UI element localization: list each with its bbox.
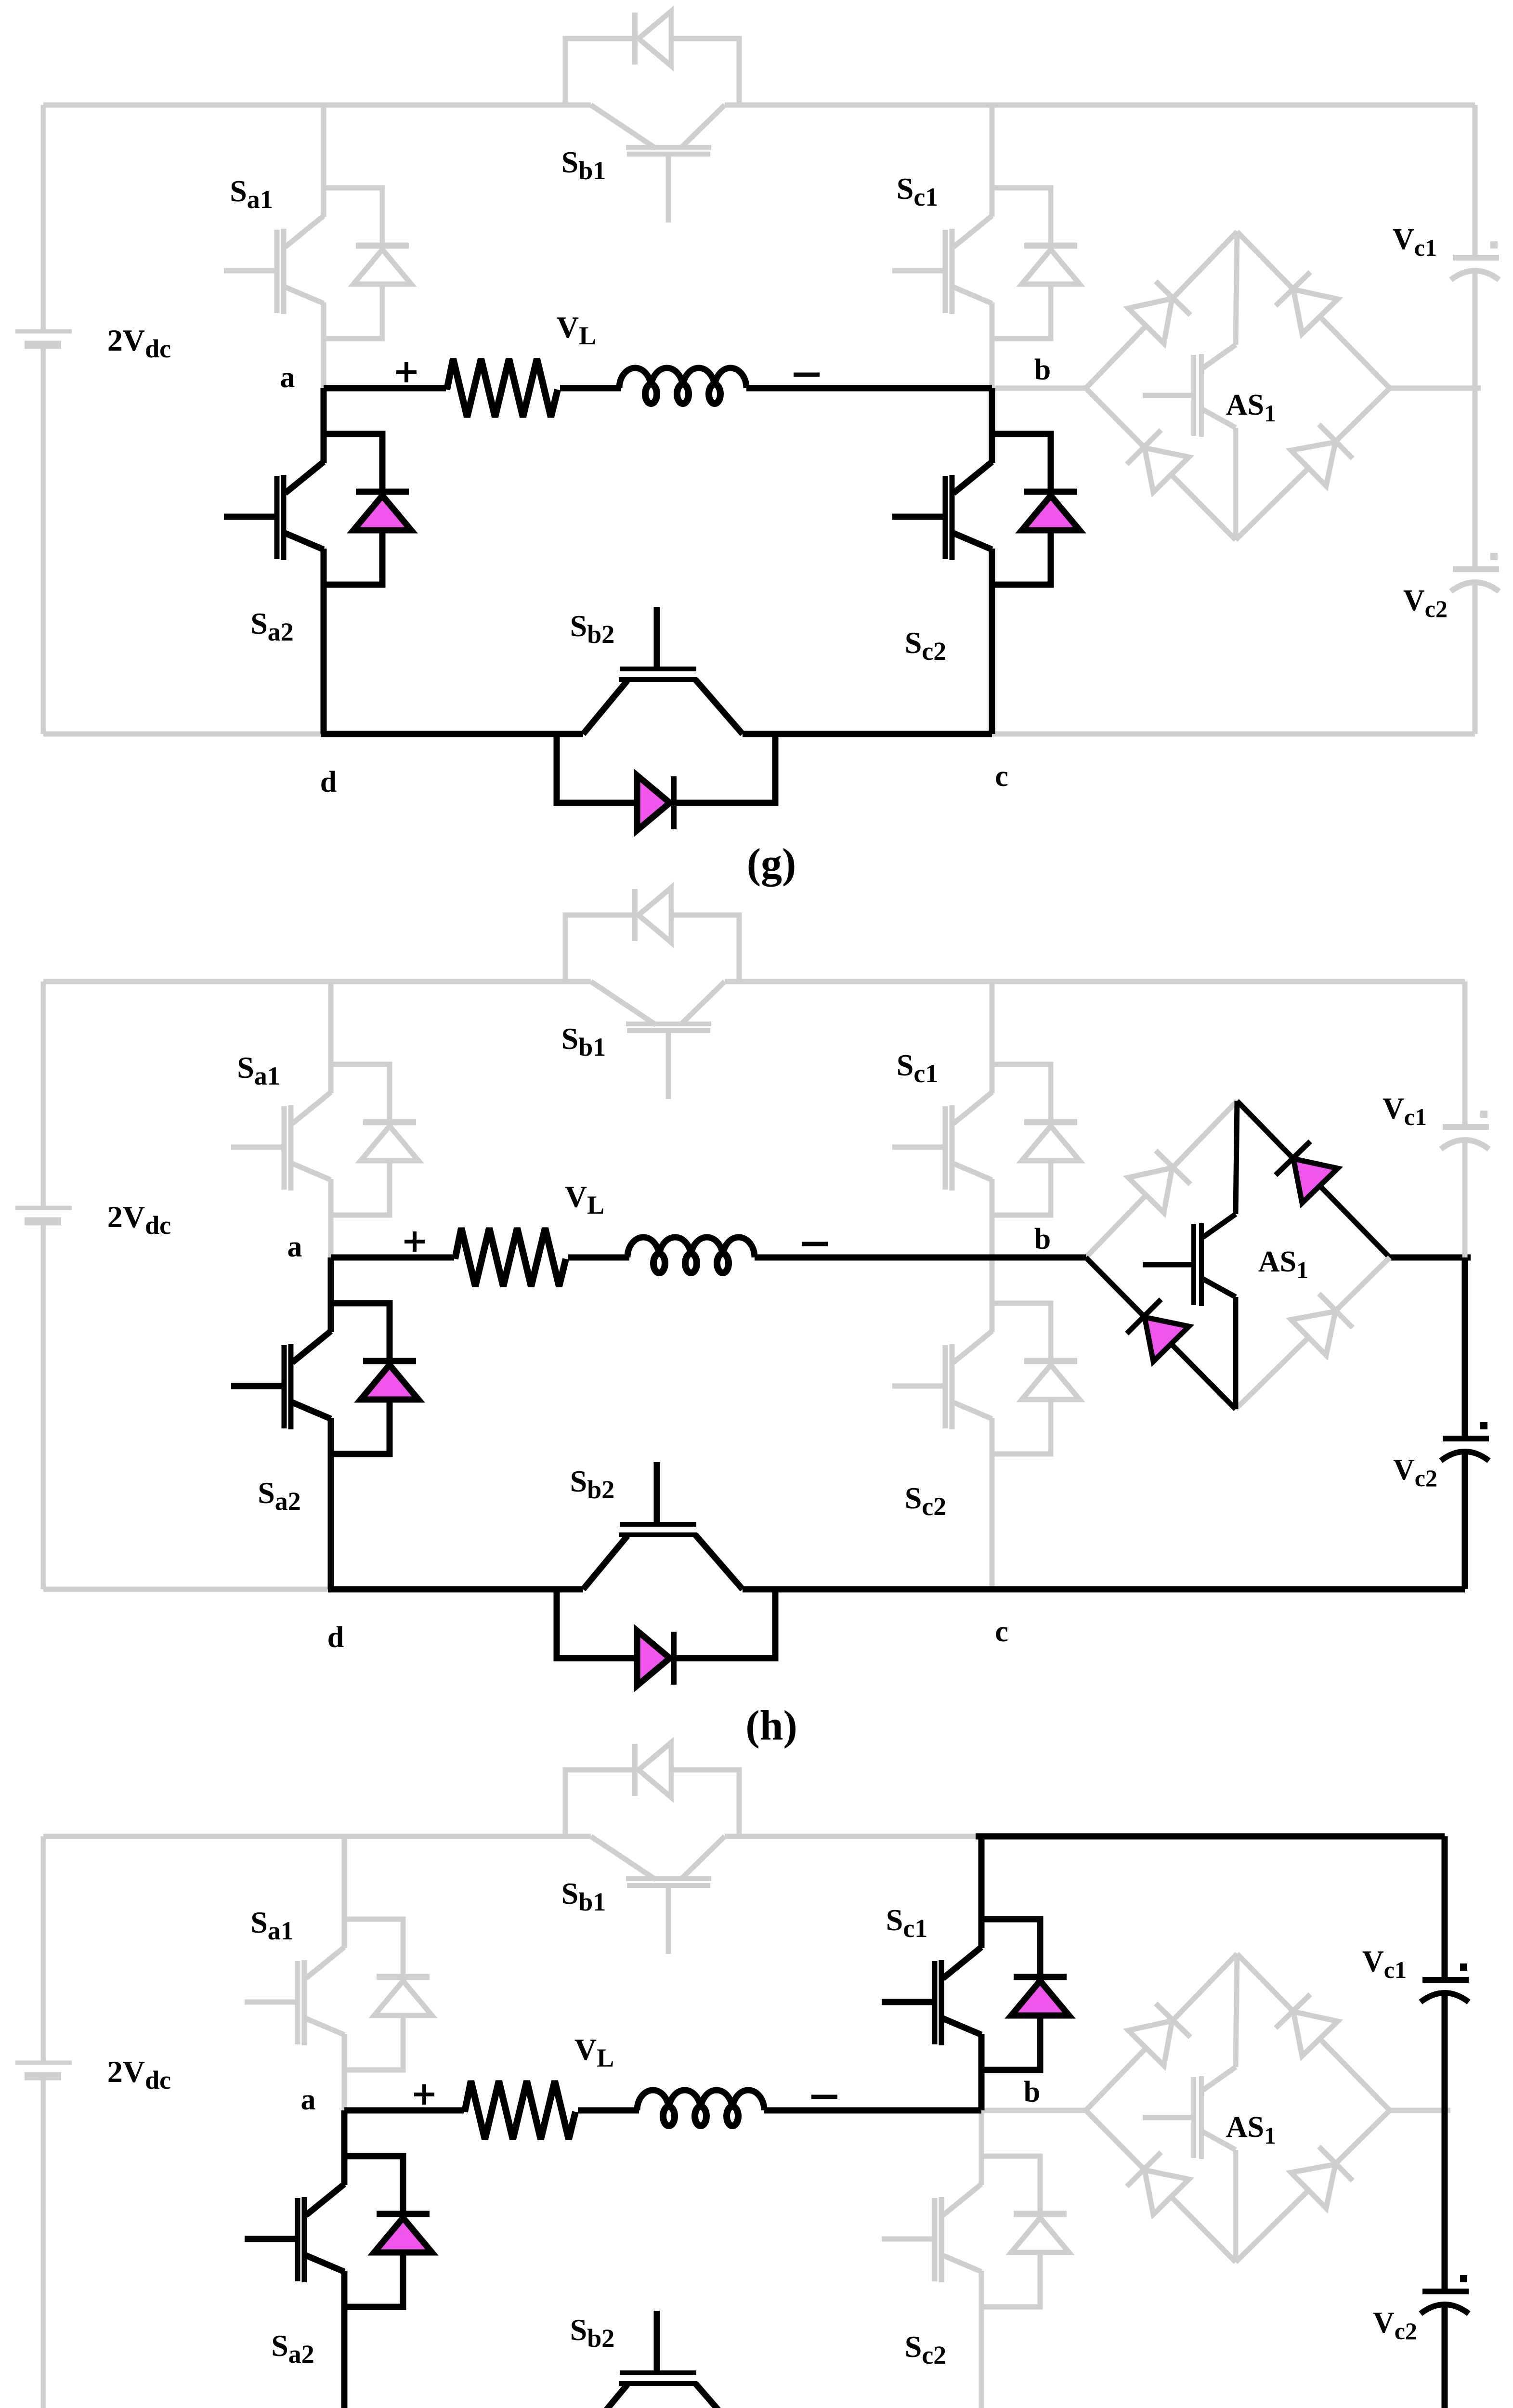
- wire top rail left segment: [43, 979, 591, 984]
- wire Sa2 leg: [321, 388, 327, 463]
- wire resistor to inductor: [560, 385, 621, 392]
- wire Sa1 leg: [321, 105, 326, 217]
- transistor Sa2: [231, 1331, 331, 1429]
- wire top rail left segment: [43, 103, 591, 108]
- diode antiparallel Sa1: [377, 1974, 430, 1980]
- wire left rail: [41, 982, 46, 1208]
- polarity +: [396, 370, 417, 374]
- transistor Sc1: [892, 216, 992, 314]
- svg-text:a: a: [301, 2083, 316, 2116]
- wire Sc2 leg: [990, 1257, 995, 1332]
- wire Sc1 leg: [990, 105, 995, 217]
- capacitor Vc2: [1453, 566, 1499, 572]
- wire top rail right segment: [725, 1834, 980, 1839]
- wire bridge right corner to rail: [1390, 1255, 1471, 1261]
- wire Sb1 diode loop: [565, 39, 635, 105]
- wire Sa2 leg: [328, 1257, 334, 1332]
- svg-text:a: a: [280, 361, 295, 394]
- diode bridge bottom-right: [1236, 388, 1390, 540]
- wire right rail lower-mid segment: [1462, 1257, 1468, 1439]
- wire Sc2 leg: [979, 2110, 984, 2185]
- diode bridge top-right: [1237, 1954, 1390, 2110]
- transistor Sa2: [224, 462, 324, 560]
- capacitor Vc1: [1422, 1977, 1469, 1983]
- polarity -: [794, 373, 820, 377]
- transistor Sb1: [591, 982, 656, 1025]
- resistor load R: [465, 2081, 575, 2139]
- transistor Sc1: [882, 1947, 981, 2045]
- diode antiparallel Sa2: [363, 1358, 416, 1364]
- wire Sb1 diode loop: [565, 915, 635, 982]
- wire left rail: [41, 1836, 46, 2063]
- wire right rail bottom segment: [1473, 582, 1478, 734]
- polarity -: [811, 2095, 837, 2099]
- wire inductor to node b: [764, 2107, 981, 2114]
- transistor AS1: [1203, 345, 1236, 368]
- wire AS1 vertical: [1236, 1954, 1237, 2067]
- diode antiparallel Sa1: [356, 243, 409, 249]
- wire bottom rail d segment: [328, 1586, 583, 1593]
- wire resistor to inductor: [568, 1255, 629, 1261]
- diode bridge bottom-left: [1086, 388, 1236, 540]
- wire bottom rail right segment: [992, 1586, 1465, 1593]
- transistor Sa1: [245, 1947, 344, 2045]
- wire Sb2 diode loop: [557, 734, 637, 803]
- diode bridge top-left: [1086, 232, 1237, 388]
- diode bridge bottom-right: [1236, 2110, 1390, 2262]
- wire right rail upper-mid segment: [1473, 270, 1478, 388]
- wire top rail left segment: [43, 1834, 591, 1839]
- diode bridge top-left: [1086, 1101, 1237, 1257]
- svg-text:c: c: [995, 1615, 1008, 1648]
- wire right rail top segment: [1462, 982, 1468, 1128]
- diode bridge top-left: [1086, 1954, 1237, 2110]
- wire Sc2 leg: [989, 388, 995, 463]
- transistor Sc2: [892, 462, 992, 560]
- wire AS1 vertical: [1236, 232, 1237, 345]
- wire Sb1 diode loop: [565, 1770, 635, 1836]
- diode bridge top-right: [1237, 1101, 1390, 1257]
- diode antiparallel Sc2: [1024, 1358, 1077, 1364]
- svg-text:(g): (g): [747, 840, 796, 887]
- wire bottom rail d segment: [321, 731, 583, 737]
- wire Sc1 leg: [990, 982, 995, 1093]
- diode antiparallel Sc2: [1014, 2211, 1067, 2217]
- transistor Sb1: [591, 105, 656, 148]
- svg-text:c: c: [995, 760, 1008, 793]
- transistor Sa1: [231, 1092, 331, 1191]
- resistor load R: [455, 1228, 566, 1286]
- svg-text:d: d: [327, 1621, 344, 1654]
- wire right rail bottom segment: [1442, 2304, 1448, 2408]
- transistor Sb2: [583, 1536, 627, 1589]
- diode antiparallel Sb1: [632, 1744, 638, 1796]
- battery 2Vdc: [15, 2061, 72, 2065]
- svg-text:(h): (h): [745, 1702, 797, 1749]
- polarity +: [404, 1240, 425, 1243]
- diode bridge bottom-left: [1086, 1257, 1236, 1409]
- svg-text:d: d: [320, 766, 337, 798]
- diode bridge bottom-right: [1236, 1257, 1390, 1409]
- diode antiparallel Sa1: [363, 1119, 416, 1125]
- inductor load L: [619, 368, 746, 388]
- wire right rail lower-mid segment: [1442, 2110, 1448, 2291]
- capacitor Vc1: [1443, 1124, 1489, 1130]
- wire resistor to inductor: [578, 2107, 639, 2114]
- wire left rail: [41, 105, 46, 331]
- capacitor Vc2: [1422, 2289, 1469, 2294]
- wire bridge right corner to rail: [1390, 386, 1481, 391]
- wire right rail bottom segment: [1462, 1451, 1468, 1589]
- diode bridge top-right: [1237, 232, 1390, 388]
- wire bottom rail c segment: [743, 1586, 992, 1593]
- inductor load L: [627, 1237, 755, 1257]
- wire bottom rail right segment: [992, 732, 1475, 737]
- battery 2Vdc: [15, 1206, 72, 1210]
- wire top rail right segment: [725, 103, 1475, 108]
- diode antiparallel Sc2: [1024, 489, 1077, 495]
- inductor load L: [637, 2090, 764, 2110]
- transistor Sc2: [882, 2184, 981, 2282]
- battery 2Vdc: [15, 329, 72, 334]
- diode bridge bottom-left: [1086, 2110, 1236, 2262]
- wire Sc1 leg: [978, 1836, 985, 1948]
- transistor Sb2: [583, 2384, 627, 2408]
- transistor Sb1: [591, 1836, 656, 1880]
- transistor AS1: [1203, 1214, 1236, 1237]
- wire inductor to node b: [746, 385, 992, 392]
- diode antiparallel Sb1: [632, 889, 638, 941]
- wire top rail right segment: [725, 979, 1465, 984]
- wire load node a to resistor: [331, 1255, 454, 1261]
- wire Sb2 diode loop: [557, 1589, 637, 1658]
- svg-text:b: b: [1034, 353, 1051, 386]
- wire AS1 vertical: [1236, 1101, 1237, 1214]
- wire bottom rail c segment: [743, 731, 992, 737]
- diode antiparallel Sb1: [632, 13, 638, 65]
- wire Sa2 leg: [341, 2110, 348, 2185]
- polarity +: [414, 2093, 434, 2096]
- wire top rail right black segment: [976, 1833, 1445, 1840]
- wire Sa1 leg: [328, 982, 334, 1093]
- wire node b to bridge: [992, 1255, 1086, 1261]
- wire right rail upper-mid segment: [1442, 1992, 1448, 2110]
- transistor Sa1: [224, 216, 324, 314]
- resistor load R: [447, 359, 558, 417]
- capacitor Vc1: [1453, 255, 1499, 261]
- wire node b to bridge: [981, 2108, 1086, 2113]
- svg-text:b: b: [1034, 1223, 1051, 1256]
- svg-text:a: a: [287, 1230, 302, 1263]
- wire right rail upper-mid segment: [1462, 1139, 1468, 1257]
- wire right rail top segment: [1442, 1836, 1448, 1981]
- wire Sa1 leg: [342, 1836, 347, 1948]
- diode antiparallel Sa2: [356, 489, 409, 495]
- wire right rail top segment: [1473, 105, 1478, 259]
- transistor Sa2: [245, 2184, 344, 2282]
- wire bridge right corner to rail: [1390, 2108, 1450, 2113]
- transistor Sb2: [583, 681, 627, 734]
- diode antiparallel Sb2: [671, 776, 677, 829]
- capacitor Vc2: [1443, 1436, 1489, 1441]
- diode antiparallel Sc1: [1024, 1119, 1077, 1125]
- diode antiparallel Sc1: [1024, 243, 1077, 249]
- diode antiparallel Sb2: [671, 1632, 677, 1685]
- diode antiparallel Sc1: [1014, 1974, 1067, 1980]
- wire bottom rail left segment: [43, 1587, 331, 1592]
- polarity -: [802, 1242, 828, 1246]
- transistor Sc1: [892, 1092, 992, 1191]
- wire node b to bridge: [992, 386, 1086, 391]
- diode antiparallel Sa2: [377, 2211, 430, 2217]
- wire load node a to resistor: [344, 2107, 464, 2114]
- wire bottom rail left segment: [43, 732, 324, 737]
- transistor Sc2: [892, 1331, 992, 1429]
- wire load node a to resistor: [324, 385, 446, 392]
- transistor AS1: [1203, 2067, 1236, 2090]
- wire right rail lower-mid segment: [1473, 388, 1478, 569]
- wire inductor to node b: [755, 1255, 1086, 1261]
- svg-text:b: b: [1024, 2076, 1040, 2108]
